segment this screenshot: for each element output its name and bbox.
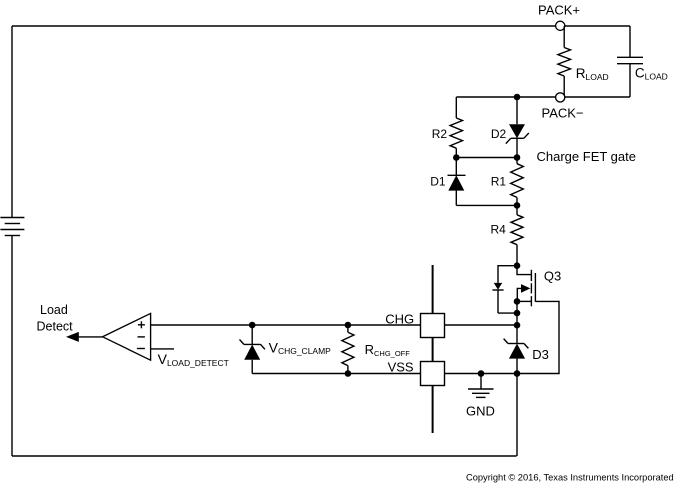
signal arrow Load Detect	[37, 303, 103, 342]
node at 517,325.2	[514, 322, 521, 329]
node at 517,265.7	[514, 262, 521, 269]
wire Q3 column down	[516, 301, 518, 343]
svg-text:Charge FET gate: Charge FET gate	[537, 149, 636, 164]
svg-text:D1: D1	[430, 174, 446, 188]
pin CHG	[421, 314, 445, 338]
diode D2 zener	[491, 97, 529, 158]
node RCHG_OFF top	[345, 322, 352, 329]
wire charge FET gate row	[456, 157, 517, 159]
zener VCHG_CLAMP	[240, 325, 332, 374]
svg-text:GND: GND	[466, 403, 495, 418]
wire top rail to PACK+	[12, 25, 556, 27]
resistor RLOAD	[558, 26, 609, 97]
svg-text:R4: R4	[491, 222, 507, 236]
node RCHG_OFF bottom	[345, 370, 352, 377]
terminal PACK+	[556, 21, 565, 30]
wire bottom rail	[12, 455, 517, 457]
svg-text:PACK+: PACK+	[538, 3, 580, 18]
wire CHG pin to Q3	[445, 324, 518, 326]
svg-text:Copyright © 2016, Texas Instru: Copyright © 2016, Texas Instruments Inco…	[466, 473, 674, 483]
resistor R4	[491, 205, 524, 265]
svg-text:Q3: Q3	[544, 269, 561, 284]
node at 517,373.5	[514, 370, 521, 377]
ground GND	[466, 374, 495, 419]
wire gate return	[517, 301, 559, 373]
terminal PACK-	[556, 93, 565, 102]
resistor R2	[432, 97, 463, 158]
wire left rail top segment	[11, 26, 13, 218]
svg-text:D2: D2	[491, 127, 507, 141]
node VCHG_CLAMP top	[249, 322, 256, 329]
wire PACK+ to CLOAD	[565, 25, 630, 27]
body diode of Q3	[492, 266, 517, 313]
svg-text:R1: R1	[491, 174, 507, 188]
IC bus line	[432, 265, 434, 314]
wire PACK- circle to CLOAD	[565, 96, 630, 98]
wire CHG net op-amp to pin	[151, 324, 421, 326]
node at 517,205.4	[514, 202, 521, 209]
resistor RCHG_OFF	[342, 325, 410, 374]
svg-text:CHG: CHG	[385, 312, 414, 327]
wire left rail bottom segment	[11, 236, 13, 457]
svg-text:PACK−: PACK−	[542, 105, 584, 120]
wire VSS row left	[252, 373, 420, 375]
node GND tap	[478, 370, 485, 377]
diode D3 zener	[504, 339, 549, 456]
wire PACK- row	[456, 96, 555, 98]
battery BT1	[0, 218, 24, 236]
node at 517,97	[514, 94, 521, 101]
diode D1	[430, 158, 465, 206]
svg-text:R2: R2	[432, 127, 448, 141]
resistor R1	[491, 158, 524, 206]
svg-text:Load: Load	[40, 303, 68, 317]
op-amp comparator U1	[103, 313, 229, 368]
node at 456.3,157.5	[453, 154, 460, 161]
transistor Q3	[517, 266, 561, 307]
node at 517,313.1	[514, 310, 521, 317]
svg-text:Detect: Detect	[37, 319, 74, 333]
node source tie	[514, 298, 521, 305]
capacitor CLOAD	[617, 26, 668, 97]
svg-text:D3: D3	[532, 347, 549, 362]
pin VSS	[421, 362, 445, 386]
wire D1 bottom to R1 bottom	[456, 204, 517, 206]
svg-text:VSS: VSS	[388, 360, 414, 375]
wire VSS row right	[445, 373, 518, 375]
node at 517,157.5	[514, 154, 521, 161]
